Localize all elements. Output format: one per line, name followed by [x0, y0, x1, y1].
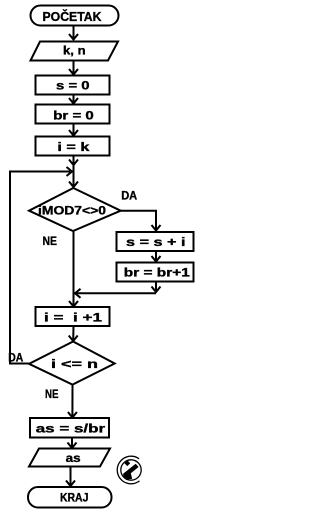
svg-text:as = s/br: as = s/br [36, 422, 106, 436]
logo glyph body [123, 464, 138, 480]
wire loop-back [10, 172, 70, 364]
process as=s/br [30, 418, 109, 438]
wire [73, 95, 75, 104]
svg-text:KRAJ: KRAJ [60, 491, 89, 505]
svg-text:NE: NE [45, 387, 59, 401]
wire [155, 282, 157, 293]
decision i<=n [29, 342, 115, 385]
wire NE down [71, 385, 73, 418]
svg-text:br = br+1: br = br+1 [124, 266, 190, 280]
terminator POCETAK [31, 6, 119, 26]
process br=0 [36, 105, 110, 124]
svg-text:k, n: k, n [63, 44, 86, 58]
process i=k [36, 137, 110, 156]
wire loop-back join arrow [67, 167, 73, 176]
process s=0 [36, 76, 110, 95]
wire [155, 251, 157, 262]
svg-text:as: as [66, 451, 81, 465]
wire [73, 156, 75, 188]
svg-text:DA: DA [8, 351, 23, 365]
wire main down [73, 231, 75, 307]
svg-text:s = 0: s = 0 [56, 79, 90, 93]
process s=s+i [117, 232, 194, 251]
wire [70, 467, 72, 487]
wire [73, 26, 75, 40]
wire [72, 326, 74, 341]
logo inner circle [121, 460, 141, 480]
svg-text:br = 0: br = 0 [53, 109, 94, 123]
process br=br+1 [117, 263, 194, 282]
wire DA branch [121, 211, 156, 231]
svg-text:i <= n: i <= n [51, 357, 98, 371]
wire [73, 124, 75, 136]
wire [71, 438, 73, 449]
decision iMOD7<>0 [29, 188, 121, 231]
io parallelogram as [29, 449, 110, 467]
svg-text:POČETAK: POČETAK [43, 9, 103, 24]
logo outer arc [117, 456, 139, 484]
svg-text:DA: DA [121, 189, 137, 203]
svg-text:s = s + i: s = s + i [126, 235, 186, 249]
wire merge horizontal [75, 292, 156, 294]
svg-text:i = k: i = k [57, 140, 89, 154]
svg-text:NE: NE [42, 234, 57, 248]
process i=i+1 [36, 307, 110, 326]
svg-text:iMOD7<>0: iMOD7<>0 [38, 204, 106, 218]
logo glyph dot [124, 460, 130, 466]
terminator KRAJ [28, 487, 112, 508]
io parallelogram k,n [31, 42, 119, 61]
wire [73, 61, 75, 75]
svg-text:i = i +1: i = i +1 [44, 311, 102, 325]
